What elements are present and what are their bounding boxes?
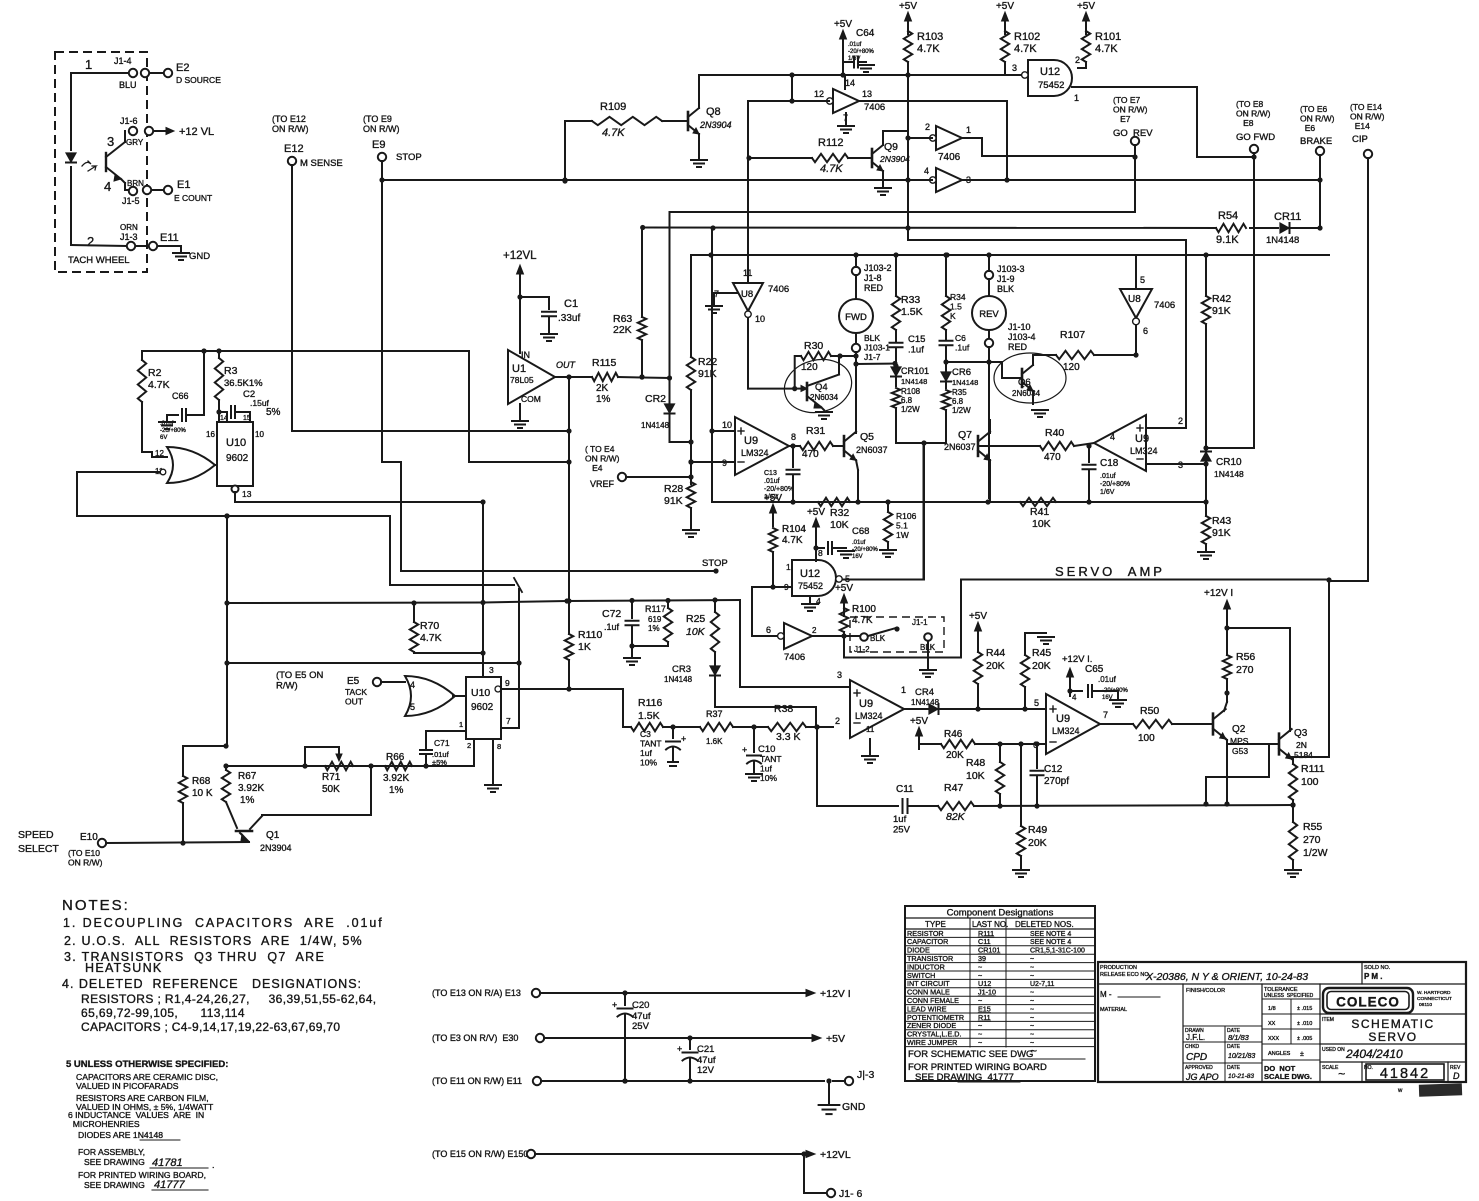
- svg-text:SCHEMATIC: SCHEMATIC: [1351, 1017, 1434, 1031]
- switch lever: [868, 628, 896, 636]
- svg-text:3: 3: [1012, 63, 1017, 73]
- svg-text:~: ~: [1030, 956, 1034, 963]
- svg-text:12: 12: [814, 89, 824, 99]
- svg-text:RED: RED: [1008, 342, 1028, 352]
- svg-text:W. HARTFORD: W. HARTFORD: [1417, 990, 1451, 996]
- terminal E9: [378, 153, 386, 161]
- resistor R102: [1001, 31, 1009, 62]
- svg-text:1/8: 1/8: [1268, 1006, 1276, 1012]
- wire u12b pin8: [815, 540, 817, 561]
- svg-text:(TO E12: (TO E12: [272, 114, 306, 124]
- opamp U9a LM324: [735, 417, 789, 475]
- svg-text:10: 10: [255, 430, 264, 439]
- svg-text:E14: E14: [1350, 121, 1370, 131]
- wire x469 drop: [469, 351, 569, 462]
- wire u8d out: [747, 318, 749, 389]
- svg-text:~: ~: [1030, 1006, 1034, 1013]
- svg-text:BLK: BLK: [997, 284, 1014, 294]
- wire x227 up: [226, 515, 228, 603]
- svg-text:(TO E13 ON R/A) E13: (TO E13 ON R/A) E13: [432, 988, 521, 998]
- svg-text:.33uf: .33uf: [558, 313, 580, 324]
- svg-text:1%: 1%: [240, 795, 255, 806]
- svg-text:R38: R38: [774, 703, 793, 715]
- svg-text:OUT: OUT: [556, 360, 577, 370]
- wire e5 in: [381, 681, 405, 683]
- svg-text:5: 5: [410, 702, 415, 712]
- svg-text:E4: E4: [585, 463, 603, 473]
- svg-text:1: 1: [901, 685, 906, 695]
- svg-text:C13: C13: [764, 470, 777, 477]
- resistor R101: [1082, 31, 1090, 62]
- svg-text:270: 270: [1236, 664, 1254, 676]
- svg-text:(TO E8: (TO E8: [1236, 99, 1264, 109]
- wire c6 to q6: [946, 361, 1002, 363]
- transistor Q8: [687, 112, 690, 130]
- svg-text:R103: R103: [917, 31, 943, 43]
- svg-text:±5%: ±5%: [432, 758, 447, 767]
- svg-text:~: ~: [1030, 990, 1034, 997]
- power +5V R100: [843, 602, 845, 616]
- svg-text:-20/+80%: -20/+80%: [160, 428, 187, 434]
- wire pin1: [71, 73, 128, 95]
- svg-text:E8: E8: [1236, 118, 1254, 128]
- svg-text:C68: C68: [852, 526, 869, 537]
- wire r70 bottom: [414, 652, 483, 653]
- svg-text:IN: IN: [521, 350, 530, 360]
- power +5V r104: [772, 512, 774, 526]
- wire r101 down: [1085, 62, 1087, 68]
- svg-text:VALUED IN PICOFARADS: VALUED IN PICOFARADS: [76, 1081, 179, 1091]
- svg-text:10K: 10K: [1032, 518, 1051, 530]
- svg-text:TANT: TANT: [640, 739, 662, 749]
- svg-text:C21: C21: [697, 1044, 714, 1055]
- svg-text:R54: R54: [1218, 210, 1238, 222]
- svg-text:Q7: Q7: [958, 429, 972, 441]
- main title block: [1098, 962, 1466, 1082]
- inverter U8b 7406: [936, 126, 962, 150]
- svg-text:1K: 1K: [578, 641, 591, 653]
- svg-text:R112: R112: [818, 137, 843, 149]
- svg-text:10K: 10K: [686, 626, 706, 638]
- svg-text:3: 3: [837, 670, 842, 680]
- svg-text:R46: R46: [944, 729, 963, 740]
- svg-text:8: 8: [791, 432, 796, 442]
- svg-text:10: 10: [755, 314, 765, 324]
- svg-text:4.7K: 4.7K: [1095, 43, 1118, 55]
- svg-text:E10: E10: [80, 832, 98, 843]
- svg-text:2: 2: [1075, 55, 1080, 65]
- svg-text:MATERIAL: MATERIAL: [1100, 1007, 1127, 1013]
- svg-text:U1: U1: [512, 363, 526, 375]
- svg-text:U10: U10: [226, 437, 246, 449]
- svg-text:1N4148: 1N4148: [952, 378, 978, 387]
- svg-text:ON R/W): ON R/W): [272, 124, 309, 134]
- svg-text:R56: R56: [1236, 651, 1255, 663]
- svg-text:619: 619: [648, 615, 662, 624]
- svg-text:+5V: +5V: [834, 19, 852, 30]
- svg-text:Q8: Q8: [706, 106, 721, 118]
- svg-text:SEE DRAWING 41777: SEE DRAWING 41777: [915, 1072, 1014, 1083]
- svg-text:ORN: ORN: [120, 223, 138, 232]
- svg-text:100: 100: [1138, 733, 1155, 744]
- svg-text:R67: R67: [238, 771, 257, 782]
- wire r103 down: [907, 62, 909, 240]
- wire bus y502: [712, 501, 1206, 503]
- svg-text:4: 4: [1110, 432, 1115, 442]
- svg-text:R66: R66: [386, 752, 405, 763]
- wire q9 collector: [882, 131, 884, 145]
- svg-text:2N6037: 2N6037: [944, 442, 976, 452]
- svg-text:K: K: [950, 311, 956, 321]
- svg-text:+5V: +5V: [835, 583, 853, 594]
- svg-text:LM324: LM324: [741, 448, 769, 458]
- svg-text:XXX: XXX: [1268, 1036, 1279, 1042]
- svg-text:~: ~: [1030, 964, 1034, 971]
- svg-text:CIP: CIP: [1352, 134, 1368, 145]
- terminal E6: [1316, 147, 1324, 155]
- wire q6 base: [1001, 362, 1003, 378]
- pin13 U10a: [232, 486, 239, 493]
- transistor Q7 2N6037: [977, 436, 980, 456]
- wire u9c out: [904, 708, 928, 710]
- svg-text:U9: U9: [1056, 713, 1070, 725]
- svg-text:65,69,72-99,105, 113,114: 65,69,72-99,105, 113,114: [81, 1006, 245, 1020]
- svg-text:JG APO: JG APO: [1185, 1072, 1219, 1082]
- svg-text:(TO E6: (TO E6: [1300, 104, 1328, 114]
- svg-text:270: 270: [1303, 834, 1321, 846]
- svg-text:10/21/83: 10/21/83: [1228, 1053, 1255, 1060]
- svg-text:(TO E3 ON R/V) E30: (TO E3 ON R/V) E30: [432, 1033, 518, 1043]
- svg-text:13: 13: [862, 89, 872, 99]
- svg-text:4.7K: 4.7K: [602, 127, 625, 139]
- wire u9b in2: [1146, 427, 1186, 429]
- phototransistor Q tach: [70, 95, 72, 150]
- svg-text:100: 100: [1301, 776, 1319, 788]
- svg-text:2N3904: 2N3904: [699, 120, 732, 130]
- svg-text:9602: 9602: [471, 702, 494, 713]
- svg-text:R104: R104: [782, 524, 806, 535]
- svg-text:10K: 10K: [966, 770, 985, 782]
- wire top bus y75: [699, 74, 1022, 76]
- svg-text:470: 470: [802, 449, 819, 460]
- svg-text:SERVO AMP: SERVO AMP: [1055, 564, 1165, 579]
- svg-text:2N6037: 2N6037: [856, 445, 888, 455]
- svg-text:+12V I: +12V I: [820, 988, 851, 1000]
- svg-text:7: 7: [506, 716, 511, 726]
- svg-text:C65: C65: [1085, 664, 1104, 675]
- svg-text:5.1: 5.1: [896, 521, 908, 531]
- svg-text:1: 1: [966, 125, 971, 135]
- svg-text:1.6K: 1.6K: [706, 737, 723, 746]
- transistor Q9: [871, 149, 874, 167]
- svg-text:.1uf: .1uf: [604, 622, 620, 632]
- terminal E7: [1131, 137, 1139, 145]
- svg-text:NO.: NO.: [1364, 1065, 1373, 1071]
- svg-text:+12 VL: +12 VL: [179, 126, 214, 138]
- svg-text:U12: U12: [1040, 66, 1060, 78]
- opamp U9b LM324: [1094, 415, 1146, 471]
- svg-text:E2: E2: [176, 62, 189, 74]
- svg-text:1/2W: 1/2W: [901, 405, 920, 414]
- wire 12vl down: [519, 288, 521, 350]
- svg-text:~: ~: [1030, 973, 1034, 980]
- connector J103-3: [985, 271, 993, 279]
- svg-text:.01uf: .01uf: [848, 42, 862, 48]
- svg-text:R37: R37: [706, 709, 723, 719]
- svg-text:FWD: FWD: [845, 312, 867, 323]
- svg-text:J103-4: J103-4: [1008, 332, 1036, 342]
- svg-text:4.7K: 4.7K: [782, 535, 803, 546]
- svg-text:R50: R50: [1140, 705, 1159, 717]
- svg-text:R42: R42: [1212, 293, 1231, 305]
- svg-text:CR6: CR6: [952, 367, 971, 378]
- svg-text:1. DECOUPLING CAPACITORS ARE: 1. DECOUPLING CAPACITORS ARE .01uf: [63, 916, 384, 930]
- svg-text:4. DELETED REFERENCE DESIGN: 4. DELETED REFERENCE DESIGNATIONS:: [62, 977, 362, 991]
- svg-text:( TO E4: ( TO E4: [585, 444, 615, 454]
- svg-text:7406: 7406: [784, 652, 805, 663]
- svg-text:3: 3: [489, 665, 494, 675]
- nand U12b 75452: [792, 560, 836, 596]
- svg-text:DELETED NOS.: DELETED NOS.: [1015, 920, 1074, 929]
- wire to E1: [152, 189, 163, 191]
- svg-text:2. U.O.S. ALL RESISTORS ARE: 2. U.O.S. ALL RESISTORS ARE 1/4W, 5%: [64, 934, 363, 948]
- wire U8a out right: [859, 100, 1007, 102]
- terminal E14: [1364, 150, 1372, 158]
- wire q2 collector: [1224, 702, 1227, 711]
- transistor Q3: [1278, 734, 1281, 755]
- svg-text:SOLD NO.: SOLD NO.: [1364, 965, 1391, 971]
- svg-text:C11: C11: [896, 784, 914, 795]
- svg-text:2N3904: 2N3904: [260, 843, 292, 853]
- svg-text:HEATSUNK: HEATSUNK: [85, 961, 163, 975]
- svg-text:R55: R55: [1303, 821, 1322, 833]
- wire bus y351: [142, 350, 469, 352]
- svg-text:X-20386, N Y & ORIENT, 10-24-8: X-20386, N Y & ORIENT, 10-24-83: [1145, 971, 1308, 983]
- nand U12a 75452: [1028, 60, 1072, 96]
- wire pin2 drop: [817, 727, 893, 806]
- svg-text:10-21-83: 10-21-83: [1228, 1073, 1254, 1080]
- capacitor C1: [520, 296, 549, 298]
- svg-text:120: 120: [1063, 362, 1080, 373]
- svg-text:.01uf: .01uf: [1098, 675, 1117, 684]
- wire u10b out: [501, 688, 569, 690]
- wire +12VL arrow: [154, 130, 166, 132]
- svg-text:J1-9: J1-9: [997, 274, 1015, 284]
- svg-text:7: 7: [1103, 710, 1108, 720]
- svg-text:BLK: BLK: [864, 333, 880, 343]
- transistor Q5 2N6037: [843, 436, 846, 456]
- svg-text:+5V: +5V: [969, 611, 987, 622]
- svg-text:06110: 06110: [1419, 1002, 1432, 1008]
- svg-text:R115: R115: [592, 357, 616, 369]
- svg-text:ANGLES: ANGLES: [1268, 1051, 1291, 1057]
- svg-text:C15: C15: [908, 334, 925, 345]
- svg-text:J1- 6: J1- 6: [839, 1188, 863, 1200]
- svg-text:Q2: Q2: [1232, 724, 1246, 735]
- svg-text:ITEM: ITEM: [1322, 1017, 1334, 1023]
- tach wheel dashed box: [55, 52, 147, 272]
- svg-text:R110: R110: [578, 629, 602, 641]
- svg-text:FOR ASSEMBLY,: FOR ASSEMBLY,: [78, 1147, 145, 1157]
- svg-text:(TO E10: (TO E10: [68, 848, 100, 858]
- svg-text:E11: E11: [160, 232, 179, 244]
- wire r109 left: [565, 120, 592, 122]
- svg-text:(TO E11 ON R/W) E11: (TO E11 ON R/W) E11: [432, 1076, 522, 1086]
- svg-text:+12V I: +12V I: [1204, 588, 1233, 599]
- connector J103-1: [855, 333, 857, 343]
- svg-text:E9: E9: [372, 139, 385, 151]
- or gate U10a input: [167, 447, 215, 483]
- svg-text:R70: R70: [420, 620, 439, 632]
- svg-text:VREF: VREF: [590, 479, 615, 489]
- svg-text:2: 2: [1178, 416, 1183, 426]
- terminal E2: [164, 69, 172, 77]
- wire r108 r35 bar: [896, 442, 946, 444]
- regulator U1 78L05: [508, 350, 555, 404]
- svg-text:SEE NOTE 4: SEE NOTE 4: [1030, 931, 1071, 938]
- inverter U8d 7406: [733, 283, 763, 311]
- wire y663: [227, 662, 519, 664]
- wire y600 seg: [564, 598, 569, 603]
- svg-text:-20/+80%: -20/+80%: [764, 486, 794, 493]
- svg-text:7406: 7406: [864, 102, 885, 113]
- svg-text:6.8: 6.8: [901, 396, 913, 405]
- svg-text:4: 4: [104, 179, 111, 194]
- svg-text:4: 4: [924, 166, 929, 176]
- wire u9d out: [1100, 723, 1133, 725]
- svg-text:(TO E15 ON R/W) E150: (TO E15 ON R/W) E150: [432, 1149, 528, 1159]
- wire u8c out: [962, 179, 1007, 181]
- svg-text:Q3: Q3: [1294, 728, 1308, 739]
- svg-text:~: ~: [1030, 1015, 1034, 1022]
- wire Q8 collector: [698, 75, 700, 108]
- terminal J1-3: [845, 1077, 853, 1085]
- svg-text:R32: R32: [830, 507, 849, 519]
- power +12VL mid: [519, 273, 521, 288]
- svg-text:BLU: BLU: [119, 80, 137, 90]
- svg-text:.01uf: .01uf: [852, 540, 866, 546]
- svg-text:R71: R71: [322, 772, 341, 783]
- svg-text:9602: 9602: [226, 453, 249, 464]
- svg-text:U8: U8: [741, 289, 753, 300]
- svg-text:GND: GND: [189, 251, 210, 262]
- arrow +5V bottom: [812, 1035, 821, 1042]
- svg-text:RED: RED: [864, 283, 884, 293]
- terminal E12: [288, 157, 296, 165]
- svg-text:R28: R28: [664, 483, 683, 495]
- resistor R22: [687, 357, 695, 390]
- svg-text:U10: U10: [471, 687, 490, 699]
- wire u9d v+: [1069, 691, 1071, 696]
- svg-text:C12: C12: [1044, 764, 1063, 775]
- svg-text:~: ~: [978, 1038, 982, 1047]
- svg-text:41781: 41781: [152, 1157, 183, 1169]
- svg-text:CR3: CR3: [672, 664, 691, 675]
- svg-text:1N4148: 1N4148: [641, 421, 670, 430]
- svg-text:2: 2: [925, 122, 930, 132]
- svg-text:11: 11: [866, 725, 875, 734]
- power +5V R102: [1004, 20, 1006, 34]
- svg-text:R35: R35: [952, 388, 967, 397]
- svg-text:R117: R117: [645, 604, 666, 614]
- svg-text:FINISH/COLOR: FINISH/COLOR: [1186, 988, 1225, 994]
- svg-text:R108: R108: [901, 387, 921, 396]
- svg-text:C71: C71: [434, 738, 450, 748]
- svg-text:25V: 25V: [893, 825, 911, 836]
- svg-text:OUT: OUT: [345, 697, 363, 707]
- svg-text:SCALE: SCALE: [1322, 1065, 1339, 1071]
- terminal E4: [618, 473, 626, 481]
- component designations table: [905, 906, 1095, 1081]
- svg-text:91K: 91K: [664, 495, 683, 507]
- wire cr3 down: [715, 676, 816, 727]
- svg-text:1N4148: 1N4148: [664, 675, 693, 684]
- wire q3 col: [1227, 628, 1290, 731]
- motor REV: [988, 279, 990, 296]
- svg-text:(TO E7: (TO E7: [1113, 95, 1141, 105]
- svg-text:R45: R45: [1032, 647, 1051, 659]
- svg-text:2K: 2K: [596, 383, 609, 394]
- diode CR10: [1205, 444, 1207, 464]
- wire u9a out: [789, 445, 800, 447]
- wire vert x565: [564, 121, 566, 181]
- svg-text:C20: C20: [632, 1000, 649, 1011]
- wire U8a in: [749, 100, 829, 102]
- wire pin11: [77, 471, 160, 473]
- svg-text:C3: C3: [640, 729, 651, 739]
- svg-text:1%: 1%: [596, 394, 611, 405]
- wire y686 to r116: [501, 688, 623, 690]
- svg-text:U12: U12: [800, 568, 820, 580]
- svg-text:R33: R33: [901, 294, 920, 306]
- svg-text:J1-8: J1-8: [864, 273, 882, 283]
- svg-text:XX: XX: [1268, 1021, 1276, 1027]
- svg-text:2: 2: [87, 234, 94, 249]
- svg-text:6: 6: [1143, 326, 1148, 336]
- svg-text:R40: R40: [1045, 427, 1064, 439]
- svg-text:1uf: 1uf: [640, 748, 652, 758]
- svg-text:R44: R44: [986, 647, 1005, 659]
- svg-text:P M .: P M .: [1364, 972, 1383, 981]
- svg-text:DIODES ARE 1N4148: DIODES ARE 1N4148: [78, 1130, 163, 1140]
- svg-text:SPEED: SPEED: [18, 829, 54, 841]
- svg-text:R68: R68: [192, 776, 211, 787]
- ground U8a: [845, 113, 847, 124]
- svg-text:ON R/W): ON R/W): [1113, 105, 1148, 115]
- svg-text:R/W): R/W): [276, 681, 298, 692]
- wire q3 emitter: [1290, 756, 1293, 758]
- svg-text:2N: 2N: [1296, 740, 1307, 750]
- connector J103-4: [988, 330, 990, 339]
- svg-text:R102: R102: [1014, 31, 1040, 43]
- svg-text:+5V: +5V: [996, 1, 1014, 12]
- wire pin12: [142, 451, 152, 453]
- svg-text:USED ON: USED ON: [1322, 1047, 1345, 1053]
- svg-text:J|-3: J|-3: [857, 1069, 874, 1081]
- svg-text:CR10: CR10: [1216, 457, 1242, 468]
- wire bus y177 right: [1007, 179, 1320, 181]
- svg-text:470: 470: [1044, 452, 1061, 463]
- svg-text:CR1,5,1-31C-100: CR1,5,1-31C-100: [1030, 948, 1085, 955]
- svg-text:(TO E14: (TO E14: [1350, 102, 1382, 112]
- power +12VI u9d: [1069, 676, 1071, 691]
- wire x483 seg: [482, 502, 484, 677]
- wire u9a in+: [712, 430, 735, 432]
- svg-text:U9: U9: [859, 698, 873, 710]
- svg-text:C72: C72: [602, 608, 621, 620]
- svg-text:25V: 25V: [632, 1021, 650, 1032]
- wire u10b pin1: [426, 730, 466, 732]
